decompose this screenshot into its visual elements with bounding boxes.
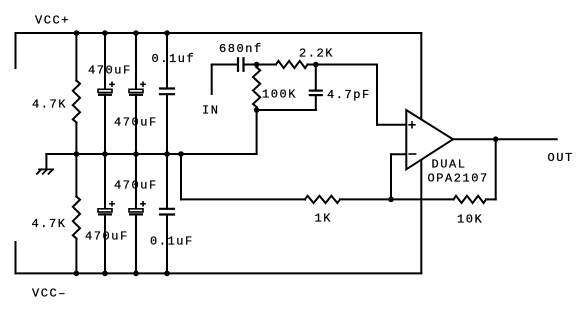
svg-text:VCC–: VCC– [32,287,67,301]
wire [340,198,454,200]
wire cap column x=105 bottom [104,154,106,209]
wire [75,123,77,197]
resistor R 4.7K bottom [73,197,80,239]
wire feedback left riser [180,154,182,199]
op-amp plus pin mark [408,121,416,154]
wire 4.7pF bottom lead [315,95,317,110]
svg-text:10K: 10K [457,213,483,227]
node inverting input junction [388,197,394,203]
op-amp minus pin mark [408,153,416,155]
node output junction [493,136,499,142]
svg-text:0.1uf: 0.1uf [152,52,196,66]
svg-text:4.7pF: 4.7pF [327,88,371,102]
wire output [453,138,557,140]
wire IN lead [212,64,238,66]
wire 2.2K out to corner [316,64,377,66]
svg-text:470uF: 470uF [114,178,158,192]
wire bottom link to 4.7pF [257,109,316,111]
wire cap column x=167 top [166,33,168,89]
capacitor C 4.7pF plates [310,89,322,91]
wire VCC- left stub [15,242,17,273]
wire feedback line left [181,198,305,200]
wire right supply vertical [420,33,422,273]
svg-text:1K: 1K [315,212,333,226]
resistor R 1K [305,196,340,203]
svg-text:DUAL: DUAL [432,158,467,172]
wire mid ground rail [46,153,256,155]
svg-text:4.7K: 4.7K [32,98,67,112]
svg-text:0.1uF: 0.1uF [150,235,194,249]
wire VCC+ top rail [16,32,422,34]
wire 100K node down to ground rail [256,110,258,154]
node 680nf/100K junction [254,62,260,68]
resistor R 4.7K top [73,81,80,123]
svg-text:2.2K: 2.2K [299,46,334,60]
capacitor C 0.1uf top plates [160,87,174,89]
resistor R 100K [253,67,260,107]
wire cap column x=136 bottom [135,154,137,209]
wire cap column x=167 bottom [166,154,168,209]
svg-text:470uF: 470uF [88,63,132,77]
capacitor C 470uF bottom-1 [98,201,115,214]
capacitor C 470uF top-2 [129,82,146,95]
wire [75,239,77,274]
svg-text:470uF: 470uF [114,116,158,130]
wire inverting input [391,153,406,155]
svg-text:OUT: OUT [548,151,574,165]
node mid rail junctions [74,151,80,157]
capacitor C 470uF bottom-2 [129,201,146,214]
wire output feedback riser [495,139,497,199]
wire 2.2K left lead [257,64,276,66]
capacitor C 680nf plates [237,58,239,71]
capacitor C 470uF top-1 [98,82,115,95]
svg-text:470uF: 470uF [85,230,129,244]
resistor R 10K [454,196,486,203]
svg-text:680nf: 680nf [219,42,263,56]
svg-text:100K: 100K [262,88,297,102]
wire 2.2K right lead [308,64,316,66]
wire VCC+ left stub [15,33,17,68]
node top rail junctions [74,30,80,36]
wire ground stub [45,154,47,169]
wire cap column x=105 top [104,33,106,89]
op-amp U1 OPA2107 triangle [406,110,453,169]
node 2.2K/4.7pF junction [313,62,319,68]
wire 100K top lead [256,65,258,68]
wire resistor column x=76 [75,33,77,81]
wire 4.7pF top lead [315,65,317,91]
node bottom rail junctions [74,271,80,277]
wire 680nf to node [244,64,257,66]
svg-text:OPA2107: OPA2107 [428,172,489,186]
ground [37,169,53,173]
wire noninverting input [376,65,378,125]
svg-text:4.7K: 4.7K [32,217,67,231]
node 100K bottom junction [254,107,260,113]
wire IN stub [211,65,213,95]
svg-text:VCC+: VCC+ [35,13,70,27]
wire [486,198,496,200]
resistor R 2.2K [276,61,308,68]
svg-text:IN: IN [202,104,220,118]
capacitor C 0.1uF bottom plates [160,208,174,210]
wire 100K bottom lead [256,107,258,110]
wire cap column x=136 top [135,33,137,89]
wire VCC- bottom rail [16,272,422,274]
